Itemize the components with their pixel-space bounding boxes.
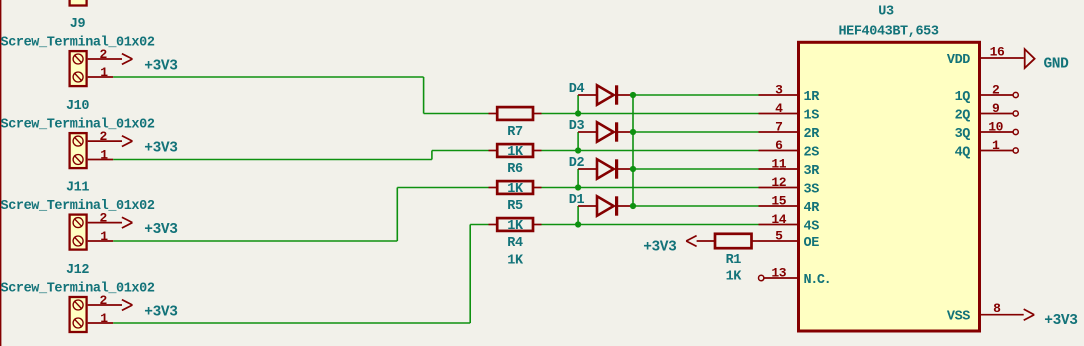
resistor R6 value 1K — [507, 145, 524, 160]
svg-text:Screw_Terminal_01x02: Screw_Terminal_01x02 — [1, 118, 155, 133]
svg-text:J11: J11 — [66, 181, 89, 196]
IC U3 value label HEF4043BT,653 — [838, 25, 938, 40]
power +3V3 arrow at J12 pin 2 — [122, 300, 132, 311]
IC U3 pin 1 (4Q) unconnected — [981, 138, 1018, 153]
svg-text:2: 2 — [100, 47, 108, 62]
wire 1R line diode to IC — [633, 94, 759, 96]
wire 3R line diode to IC — [633, 168, 759, 170]
svg-text:GND: GND — [1044, 57, 1070, 73]
svg-text:1: 1 — [100, 65, 108, 80]
svg-text:3S: 3S — [804, 182, 820, 197]
resistor R5 body — [489, 181, 542, 194]
power label +3V3 at VSS — [1044, 313, 1077, 329]
resistor R7 body — [489, 107, 542, 120]
wire D1 anode stub down — [577, 206, 579, 225]
wire D4 anode stub down — [577, 95, 579, 114]
resistor R4 second value label 1K — [507, 254, 524, 269]
svg-text:12: 12 — [771, 175, 786, 190]
svg-text:5: 5 — [775, 228, 783, 243]
IC U3 pin 4 (1S) left — [759, 101, 799, 116]
svg-text:R6: R6 — [507, 162, 523, 177]
connector J12 pin 2 — [88, 293, 122, 308]
IC U3 pin 9 (2Q) unconnected — [981, 101, 1018, 116]
svg-text:9: 9 — [992, 101, 1000, 116]
IC U3 pin name 2Q — [955, 108, 971, 123]
wire D2 anode stub down — [577, 169, 579, 188]
connector J12 body — [70, 297, 87, 332]
IC U3 pin name 3Q — [955, 127, 971, 142]
svg-text:1Q: 1Q — [955, 90, 971, 105]
IC U3 pin name N.C. — [804, 273, 831, 288]
connector J11 pin 2 — [88, 210, 122, 225]
diode D1 reference label — [569, 193, 585, 208]
connector J9 body — [70, 51, 87, 86]
power label +3V3 at J10 — [144, 141, 177, 157]
svg-text:4: 4 — [775, 101, 783, 116]
svg-text:4Q: 4Q — [955, 145, 971, 160]
diode D4 symbol — [578, 85, 633, 104]
svg-text:HEF4043BT,653: HEF4043BT,653 — [838, 25, 938, 40]
sheet border frame left edge — [0, 0, 2, 346]
wire from J9 pin 1 horizontal — [113, 76, 423, 78]
power +3V3 arrow at J10 pin 2 — [122, 136, 132, 147]
svg-text:N.C.: N.C. — [804, 273, 831, 288]
svg-text:R1: R1 — [726, 253, 742, 268]
power +3V3 arrow at VSS — [1024, 309, 1034, 320]
wire 1S line resistor to IC — [542, 113, 759, 115]
connector J10 pin 2 — [88, 129, 122, 144]
power +3V3 arrow at R1 — [686, 236, 715, 247]
wire from J12 pin 1 horizontal — [113, 322, 470, 324]
IC U3 pin 11 (3R) left — [759, 156, 799, 171]
svg-text:11: 11 — [771, 156, 786, 171]
svg-text:VSS: VSS — [947, 310, 970, 325]
power label +3V3 at J9 — [144, 58, 177, 74]
svg-text:2S: 2S — [804, 145, 820, 160]
IC U3 pin name VDD — [947, 53, 970, 68]
wire from J10 bend to resistor — [432, 150, 489, 152]
wire from J9 vertical bend — [423, 77, 425, 114]
junction at D2 cathode — [630, 166, 636, 172]
svg-text:6: 6 — [775, 138, 783, 153]
IC U3 pin 14 (4S) left — [759, 212, 799, 227]
svg-text:J9: J9 — [70, 17, 86, 32]
connector J12 pin 1 — [88, 311, 114, 326]
svg-text:J10: J10 — [66, 99, 89, 114]
junction at D4 cathode — [630, 92, 636, 98]
wire from J9 bend to resistor — [424, 113, 489, 115]
IC U3 pin 6 (2S) left — [759, 138, 799, 153]
IC U3 pin 2 (1Q) unconnected — [981, 82, 1018, 97]
power label GND — [1044, 57, 1070, 73]
IC U3 pin 10 (3Q) unconnected — [981, 119, 1018, 134]
wire from J10 vertical bend — [431, 151, 433, 160]
svg-text:+3V3: +3V3 — [144, 222, 177, 238]
svg-text:Screw_Terminal_01x02: Screw_Terminal_01x02 — [1, 36, 155, 51]
IC U3 pin name 4R — [804, 201, 821, 216]
IC U3 pin name OE — [804, 236, 820, 251]
svg-text:4S: 4S — [804, 219, 820, 234]
resistor R4 value 1K — [507, 219, 524, 234]
connector J10 value label Screw_Terminal_01x02 — [1, 118, 155, 133]
svg-text:1K: 1K — [507, 182, 524, 197]
IC U3 body — [799, 42, 980, 331]
svg-text:3: 3 — [775, 82, 783, 97]
IC U3 pin name 1S — [804, 108, 820, 123]
power +3V3 arrow at J11 pin 2 — [122, 217, 132, 228]
svg-text:1: 1 — [100, 229, 108, 244]
svg-text:R7: R7 — [507, 125, 523, 140]
diode D1 symbol — [578, 196, 633, 215]
wire from J10 pin 1 horizontal — [113, 159, 432, 161]
connector J10 reference label — [66, 99, 89, 114]
svg-text:1R: 1R — [804, 90, 821, 105]
wire from J11 pin 1 horizontal — [113, 240, 397, 242]
svg-text:VDD: VDD — [947, 53, 970, 68]
IC U3 pin name VSS — [947, 310, 970, 325]
connector J12 reference label — [66, 263, 89, 278]
IC U3 pin name 3R — [804, 164, 821, 179]
svg-text:1K: 1K — [507, 219, 524, 234]
svg-text:2: 2 — [992, 82, 1000, 97]
IC U3 pin 15 (4R) left — [759, 193, 799, 208]
connector J12 value label Screw_Terminal_01x02 — [1, 281, 155, 296]
wire 2S line resistor to IC — [542, 150, 759, 152]
wire from J11 vertical bend — [396, 188, 398, 242]
svg-text:R4: R4 — [507, 236, 523, 251]
wire from J12 bend to resistor — [470, 224, 488, 226]
svg-text:3Q: 3Q — [955, 127, 971, 142]
wire 3S line resistor to IC — [542, 187, 759, 189]
diode D3 symbol — [578, 122, 633, 141]
svg-text:13: 13 — [771, 265, 786, 280]
power label +3V3 at R1 — [643, 239, 676, 255]
resistor R6 reference label — [507, 162, 523, 177]
junction at D3 anode on S line — [575, 147, 581, 153]
connector J9 pin 2 — [88, 47, 122, 62]
diode D3 reference label — [569, 119, 585, 134]
svg-text:OE: OE — [804, 236, 820, 251]
svg-text:1S: 1S — [804, 108, 820, 123]
diode D2 symbol — [578, 159, 633, 178]
connector J11 body — [70, 215, 87, 250]
connector J10 body — [70, 133, 87, 168]
power label +3V3 at J12 — [144, 304, 177, 320]
resistor R1 reference label — [726, 253, 742, 268]
IC U3 pin name 4Q — [955, 145, 971, 160]
wire from J12 vertical bend — [469, 225, 471, 324]
svg-text:1K: 1K — [507, 254, 524, 269]
IC U3 pin name 1Q — [955, 90, 971, 105]
connector J11 value label Screw_Terminal_01x02 — [1, 199, 155, 214]
svg-text:1: 1 — [992, 138, 1000, 153]
wire vertical bus joining diode cathodes — [632, 95, 634, 206]
svg-text:2Q: 2Q — [955, 108, 971, 123]
svg-text:10: 10 — [988, 119, 1003, 134]
resistor R4 body — [489, 218, 542, 231]
svg-text:8: 8 — [993, 301, 1001, 316]
svg-text:1K: 1K — [507, 145, 524, 160]
wire 2R line diode to IC — [633, 131, 759, 133]
svg-text:1: 1 — [100, 147, 108, 162]
svg-text:+3V3: +3V3 — [1044, 313, 1077, 329]
wire D3 anode stub down — [577, 132, 579, 151]
svg-text:4R: 4R — [804, 201, 821, 216]
svg-text:2: 2 — [100, 210, 108, 225]
svg-text:1: 1 — [100, 311, 108, 326]
IC U3 pin 3 (1R) left — [759, 82, 799, 97]
resistor R6 body — [489, 144, 542, 157]
IC U3 pin 12 (3S) left — [759, 175, 799, 190]
connector J8 (partial, clipped at top) — [70, 0, 87, 6]
svg-text:U3: U3 — [878, 4, 894, 19]
IC U3 pin name 3S — [804, 182, 820, 197]
resistor R7 reference label — [507, 125, 523, 140]
wire from J11 bend to resistor — [397, 187, 488, 189]
wire 4R line diode to IC — [633, 205, 759, 207]
junction at D4 anode on S line — [575, 110, 581, 116]
svg-text:Screw_Terminal_01x02: Screw_Terminal_01x02 — [1, 199, 155, 214]
junction at D2 anode on S line — [575, 184, 581, 190]
resistor R1 value 1K — [726, 270, 743, 285]
IC U3 pin name 2R — [804, 127, 821, 142]
op IC U3 reference label — [878, 4, 894, 19]
connector J9 value label Screw_Terminal_01x02 — [1, 36, 155, 51]
svg-text:2: 2 — [100, 293, 108, 308]
svg-text:3R: 3R — [804, 164, 821, 179]
wire 4S line resistor to IC — [542, 224, 759, 226]
diode D2 reference label — [569, 156, 585, 171]
IC U3 pin name 4S — [804, 219, 820, 234]
junction at D3 cathode — [630, 129, 636, 135]
connector J10 pin 1 — [88, 147, 114, 162]
IC U3 pin 13 (N.C.) left — [759, 265, 799, 280]
junction at D1 anode on S line — [575, 221, 581, 227]
power +3V3 arrow at J9 pin 2 — [122, 54, 132, 65]
IC U3 pin 16 (VDD) — [981, 45, 1024, 60]
connector J11 pin 1 — [88, 229, 114, 244]
svg-text:1K: 1K — [726, 270, 743, 285]
IC U3 pin 7 (2R) left — [759, 119, 799, 134]
svg-text:+3V3: +3V3 — [144, 141, 177, 157]
junction at D1 cathode — [630, 203, 636, 209]
power label +3V3 at J11 — [144, 222, 177, 238]
svg-text:7: 7 — [775, 119, 782, 134]
svg-text:2: 2 — [100, 129, 108, 144]
svg-text:2R: 2R — [804, 127, 821, 142]
svg-text:15: 15 — [771, 193, 786, 208]
IC U3 pin name 2S — [804, 145, 820, 160]
resistor R5 reference label — [507, 199, 523, 214]
svg-text:14: 14 — [771, 212, 786, 227]
svg-text:+3V3: +3V3 — [643, 239, 676, 255]
resistor R5 value 1K — [507, 182, 524, 197]
diode D4 reference label — [569, 82, 585, 97]
resistor R1 body — [715, 234, 759, 248]
IC U3 pin 8 (VSS) — [981, 301, 1024, 316]
svg-text:R5: R5 — [507, 199, 523, 214]
connector J9 reference label — [70, 17, 86, 32]
svg-text:+3V3: +3V3 — [144, 304, 177, 320]
resistor R4 reference label — [507, 236, 523, 251]
connector J9 pin 1 — [88, 65, 114, 80]
svg-text:+3V3: +3V3 — [144, 58, 177, 74]
IC U3 pin name 1R — [804, 90, 821, 105]
power GND flag at VDD — [1025, 49, 1035, 68]
IC U3 pin 5 (OE) left — [759, 228, 799, 243]
svg-text:J12: J12 — [66, 263, 89, 278]
connector J11 reference label — [66, 181, 89, 196]
svg-text:Screw_Terminal_01x02: Screw_Terminal_01x02 — [1, 281, 155, 296]
svg-text:16: 16 — [990, 45, 1005, 60]
